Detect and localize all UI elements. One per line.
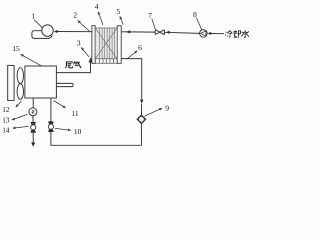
wire: arrow to diamond: [141, 104, 143, 115]
svg-text:15: 15: [12, 44, 20, 53]
leader for label 3: [81, 47, 89, 56]
pump P8 triangle: [201, 31, 206, 36]
valve 7 bowtie: [155, 30, 164, 35]
wire: valve 7 to pump 8: [165, 32, 200, 33]
leader for label 9: [144, 108, 162, 116]
leader for label 11: [54, 101, 66, 108]
meter M1 circle: [29, 108, 37, 116]
wire: exchanger bottom outlet to right: [121, 59, 142, 100]
leader for label 10: [55, 128, 71, 130]
flow arrow toward exchanger: [126, 30, 130, 33]
svg-text:5: 5: [116, 7, 120, 16]
leader for label 5: [120, 16, 123, 24]
wire: meter to valve: [32, 116, 34, 123]
leader for label 15: [21, 54, 43, 66]
tank side nozzle: [56, 83, 73, 86]
svg-text:10: 10: [74, 127, 82, 136]
check valve diamond 9: [137, 115, 146, 124]
valve V10: [48, 122, 53, 132]
svg-text:4: 4: [95, 2, 99, 11]
radiator panel: [8, 65, 14, 100]
flow arrow into pump 8: [208, 32, 212, 35]
valve V14: [31, 123, 36, 133]
heat exchanger E1 left header: [92, 26, 95, 64]
leader for label 4: [98, 12, 103, 25]
fan blade lower: [17, 84, 23, 100]
heat exchanger E1 bottom grid: [95, 59, 117, 63]
heat exchanger E1 cross braces: [95, 28, 117, 58]
wire: cooling water inlet: [211, 33, 224, 35]
wire: valve down and bottom pipe to right: [51, 131, 142, 145]
svg-text:6: 6: [138, 43, 142, 52]
outlet arrow down: [31, 142, 35, 147]
wire: diamond down to bottom pipe: [140, 124, 142, 145]
svg-text:11: 11: [71, 109, 78, 118]
svg-text:3: 3: [77, 39, 81, 48]
svg-text:13: 13: [2, 117, 10, 125]
svg-text:2: 2: [73, 11, 77, 20]
heat exchanger E1 shell: [95, 28, 117, 59]
wire: tank to riser pipe: [56, 72, 90, 74]
leader for label 6: [127, 51, 137, 59]
leader for label 2: [78, 20, 91, 32]
exhaust gas inlet riser: [91, 58, 93, 73]
meter M1 mark: [32, 111, 35, 114]
heat exchanger E1 tubes: [100, 28, 115, 59]
heat exchanger E1 right header: [117, 26, 121, 64]
leader for label 12: [16, 101, 22, 107]
leader for label 7: [152, 19, 156, 29]
wire: valve to outlet: [32, 132, 34, 143]
tank T1: [25, 66, 57, 98]
flow arrow into blower 1: [54, 30, 58, 33]
svg-text:12: 12: [2, 106, 10, 114]
wire: exchanger top right to valve 7: [121, 31, 155, 33]
leader for label 8: [196, 18, 201, 30]
wire: top-left pipe blower to exchanger: [57, 31, 92, 33]
blower B1 volute: [32, 31, 53, 39]
diamond inner circle: [139, 116, 145, 122]
text label 尾气 (exhaust gas): [65, 61, 80, 68]
svg-text:14: 14: [2, 126, 10, 134]
svg-text:1: 1: [31, 12, 35, 21]
wire: tank bottom right drop: [50, 98, 52, 122]
svg-text:9: 9: [165, 104, 169, 113]
flow arrow up into exchanger: [89, 58, 93, 63]
svg-text:7: 7: [148, 11, 152, 20]
flow arrow down on right line: [140, 100, 143, 104]
pump P8 circle: [200, 30, 208, 38]
flow arrow after valve 7: [166, 31, 170, 34]
blower B1 circle: [42, 25, 53, 36]
leader for label 14: [13, 126, 29, 128]
wire: tank bottom left drop: [32, 98, 34, 108]
fan blade upper: [17, 68, 23, 84]
leader for label 13: [12, 114, 27, 120]
leader for label 1: [34, 20, 46, 32]
text label 冷却水 (cooling water): [225, 30, 249, 37]
